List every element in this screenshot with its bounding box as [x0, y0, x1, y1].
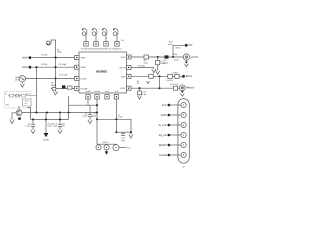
oscillator Y2 circle	[19, 76, 25, 82]
junction R1 x157.7	[157, 56, 159, 58]
rail bottom pin4	[115, 99, 117, 132]
wire transistor base to ground	[12, 113, 16, 120]
capacitor C14 box inline	[149, 74, 153, 78]
svg-text:IOUTB: IOUTB	[119, 67, 126, 70]
power flag F4	[113, 28, 118, 41]
header pin circle 2	[181, 112, 186, 117]
wire bottom y132.2	[116, 131, 131, 133]
svg-text:XTAL1: XTAL1	[103, 141, 110, 144]
pin 27 box right	[127, 66, 132, 70]
power flag F3	[102, 28, 107, 41]
sub block box	[23, 99, 32, 106]
wire R2 out	[131, 67, 154, 69]
capacitor label C9	[51, 81, 56, 86]
header row 2 wire	[170, 114, 181, 116]
svg-text:FQ_UD: FQ_UD	[159, 134, 167, 137]
junction B x46	[45, 118, 47, 120]
svg-text:R10 0Ω: R10 0Ω	[166, 79, 173, 82]
junction x131 y132.2	[130, 131, 132, 133]
bottom pin box 4	[114, 95, 118, 99]
header row 3 wire	[170, 124, 181, 126]
riser label R6A	[168, 41, 174, 46]
svg-text:RESET: RESET	[159, 144, 167, 147]
capacitor C6 label	[25, 122, 31, 127]
wire transistor top to block	[18, 106, 20, 110]
svg-text:49.9Ω: 49.9Ω	[174, 59, 179, 62]
svg-text:10kΩ: 10kΩ	[57, 51, 62, 54]
header pin circle 4	[181, 132, 186, 137]
svg-text:RF IN: RF IN	[186, 75, 192, 78]
bottom pin box 2	[95, 95, 99, 99]
resistor R6 box	[10, 94, 14, 97]
header row 3 dot	[168, 124, 171, 127]
node VINP dot	[29, 56, 32, 59]
svg-text:RSET: RSET	[120, 87, 126, 90]
ground arrow C16	[137, 95, 141, 99]
ground flag under oscillator	[20, 82, 24, 87]
resistor R2 pullup label	[57, 48, 62, 53]
svg-text:C15 0.1μF: C15 0.1μF	[170, 83, 179, 86]
ground arrow under P2	[105, 150, 109, 155]
resistor R4 label	[144, 59, 149, 64]
wire VINP to pin1	[31, 57, 74, 59]
svg-text:R1 0Ω: R1 0Ω	[42, 53, 48, 56]
wire B horizontal	[31, 118, 69, 120]
dashed option box	[5, 92, 32, 109]
header pin circle 1	[181, 102, 186, 107]
junction R3 x159.5	[158, 75, 160, 77]
resistor R10 box inline	[168, 74, 173, 78]
svg-text:IOUT: IOUT	[121, 56, 127, 59]
emitter blob	[18, 117, 21, 119]
header pin circle 5	[181, 142, 186, 147]
wire B left riser	[28, 108, 31, 120]
junction B x33	[32, 118, 34, 120]
header row 6 wire	[170, 154, 181, 156]
capacitor C10 box	[68, 86, 72, 89]
vertical rail x36.5	[36, 67, 38, 112]
inductor L1 shunt	[156, 57, 160, 71]
wire riser to TP	[173, 45, 185, 57]
svg-text:RFOUT: RFOUT	[186, 87, 195, 90]
wire VINN to pin2	[31, 66, 74, 68]
header row 6 dot	[168, 154, 171, 157]
junction wire2/rail	[54, 66, 56, 68]
header row 5 dot	[168, 144, 171, 147]
junction wire1/rail	[54, 57, 56, 59]
pin 3 box left	[75, 77, 80, 81]
junction rail97 y112.5	[96, 111, 98, 113]
svg-text:D.GND: D.GND	[159, 154, 167, 157]
svg-text:OPEN: OPEN	[175, 46, 181, 49]
svg-text:C7 0.1μF: C7 0.1μF	[59, 74, 68, 77]
capacitor C8 label right	[62, 122, 66, 127]
capacitor C3 label	[82, 112, 88, 117]
svg-text:VOUT1: VOUT1	[191, 56, 199, 59]
junction rail97 y105	[96, 104, 98, 106]
pin 25 box right	[127, 86, 132, 90]
junction A x60	[59, 111, 61, 113]
svg-text:VINP: VINP	[121, 75, 126, 78]
wire R1 out	[131, 56, 183, 58]
wire R3 out	[131, 75, 183, 77]
connector circle P3	[113, 144, 119, 150]
rail bottom pin2	[96, 99, 98, 144]
oscillator label	[15, 76, 20, 81]
resistor R9 label	[137, 80, 140, 85]
capacitor C4 loop	[116, 119, 131, 132]
svg-text:AD9851: AD9851	[96, 70, 108, 74]
inductor L1 label	[161, 60, 167, 65]
DGND net text	[48, 122, 55, 127]
label R4A	[174, 53, 179, 61]
header pin circle 6	[181, 152, 186, 157]
resistor R4 box inline	[144, 55, 149, 59]
junction A rail36	[35, 111, 37, 113]
wire y105	[68, 96, 70, 119]
junction R4 x139.5	[138, 87, 140, 89]
ground under J4	[180, 91, 184, 97]
capacitor C7b	[58, 125, 62, 130]
wire4 to pin4	[51, 87, 75, 89]
header J2 body	[178, 99, 189, 164]
wire pullup vertical	[51, 40, 56, 58]
svg-text:10μF: 10μF	[51, 84, 56, 87]
capacitor C15 box inline	[174, 86, 178, 90]
pin 26 box right	[127, 74, 132, 78]
IC U1 body	[79, 52, 127, 93]
svg-text:GND: GND	[48, 125, 53, 128]
svg-text:C3VDD 0.1: C3VDD 0.1	[101, 48, 112, 51]
crystal X1 symbol	[15, 94, 19, 97]
capacitor C16 label	[142, 91, 147, 96]
power flag F5	[47, 40, 52, 45]
svg-text:DATA: DATA	[161, 114, 167, 117]
ferrite bead FB1	[62, 85, 66, 88]
header row 1 wire	[170, 104, 181, 106]
resistor R5 box on wire4	[52, 87, 56, 90]
svg-text:49.9Ω: 49.9Ω	[168, 43, 173, 46]
junction B x60	[59, 118, 61, 120]
pin 28 box right	[127, 55, 132, 59]
top pin box 1	[84, 42, 88, 47]
svg-text:C4VDD 0.1: C4VDD 0.1	[112, 48, 123, 51]
resistor R7 label	[92, 112, 97, 117]
top pin box 3	[104, 42, 108, 47]
connector circle P2	[104, 144, 109, 150]
vertical x60 A to B	[59, 113, 61, 125]
junction wire3/rail	[54, 77, 56, 79]
SMA connector J4	[179, 85, 185, 91]
svg-text:VINN: VINN	[22, 66, 28, 69]
capacitor C3 stem	[88, 105, 92, 120]
pin 1 box left	[75, 56, 80, 60]
wire rail osc branch down	[55, 79, 57, 89]
svg-text:R8 25Ω: R8 25Ω	[138, 64, 145, 67]
svg-text:OPEN: OPEN	[173, 71, 179, 74]
resistor R11 box inline	[175, 74, 179, 78]
node VINN dot	[29, 66, 32, 69]
wire rail x55.5	[55, 58, 57, 92]
node RFIN dot	[182, 75, 185, 78]
ground arrow R2	[152, 68, 156, 73]
svg-text:W_CLK: W_CLK	[159, 124, 167, 127]
SMA connector J3	[183, 54, 189, 60]
ground under J3	[185, 60, 189, 67]
junction rail x36.5 top	[35, 66, 37, 68]
svg-text:OSC: OSC	[15, 79, 20, 82]
svg-text:DGND: DGND	[43, 138, 49, 141]
svg-text:TAJ: TAJ	[62, 125, 65, 128]
capacitor C4 label	[118, 113, 124, 118]
junction rail116 y132.2	[115, 131, 117, 133]
bottom pin box 1	[86, 95, 90, 99]
crystal row wire	[8, 95, 37, 97]
capacitor C16 shunt	[138, 88, 142, 95]
vertical R3-R4 link	[159, 76, 161, 88]
header row 4 wire	[170, 134, 181, 136]
top pin box 4	[115, 42, 119, 47]
svg-text:CLKIN: CLKIN	[81, 78, 87, 81]
junction R4 x159.5	[158, 87, 160, 89]
pin 4 box left	[75, 86, 80, 90]
connector circle P1	[96, 144, 101, 150]
wire to xtal circles	[97, 143, 116, 145]
bottom pin box 3	[105, 95, 109, 99]
svg-text:AGND: AGND	[85, 90, 91, 93]
svg-text:VINP: VINP	[81, 57, 86, 60]
top pin box 2	[94, 42, 98, 47]
signal ground DGND	[44, 133, 49, 137]
svg-text:VINN: VINN	[81, 66, 86, 69]
stem bottom pin1	[87, 99, 89, 105]
svg-text:VINP: VINP	[22, 57, 28, 60]
ground arrow x130.8	[129, 132, 133, 138]
capacitor C6	[31, 119, 35, 129]
wire B right segment	[97, 118, 116, 120]
svg-text:200Ω: 200Ω	[144, 61, 149, 64]
svg-text:DACBP: DACBP	[81, 87, 89, 90]
header pin circle 3	[181, 122, 186, 127]
ground arrow under rail	[53, 92, 57, 95]
ground arrow C3	[88, 120, 92, 124]
capacitor C13 47uF	[121, 132, 125, 135]
svg-text:BEAD: BEAD	[163, 61, 169, 64]
capacitor C11 box	[22, 94, 26, 97]
svg-text:GND: GND	[105, 90, 110, 93]
svg-text:DGND: DGND	[94, 90, 100, 93]
vertical x46 A to B	[45, 113, 47, 134]
capacitor C7b label	[53, 122, 58, 127]
power flag F1	[82, 28, 87, 41]
wire R4 out	[131, 87, 179, 89]
header row 2 dot	[168, 114, 171, 117]
ferrite bead FB2 inline	[165, 55, 169, 58]
header row 1 dot	[168, 104, 171, 107]
ground arrow C6	[31, 130, 35, 134]
junction rail97 y119.3	[96, 118, 98, 120]
svg-text:R3 0Ω: R3 0Ω	[42, 63, 48, 66]
svg-text:VCC: VCC	[162, 104, 167, 107]
power flag F2	[92, 28, 97, 41]
junction A x68.6	[68, 111, 70, 113]
header row 5 wire	[170, 144, 181, 146]
junction A x47	[46, 111, 48, 113]
capacitor C13 label	[121, 137, 126, 142]
ferrite FB2 label	[163, 59, 169, 64]
ground arrow C7b	[58, 130, 62, 134]
svg-text:10kΩ: 10kΩ	[92, 114, 97, 117]
junction R1 x173	[172, 56, 174, 58]
open marker arrow	[146, 81, 149, 83]
junction rail116 y119.3	[115, 118, 117, 120]
ground arrow base	[10, 120, 14, 124]
wire from P3 right	[119, 147, 127, 149]
svg-text:C5 10pF: C5 10pF	[59, 63, 67, 66]
wire osc to pin3	[26, 78, 75, 80]
test point TP2 dot	[185, 44, 188, 47]
pin 2 box left	[75, 65, 80, 69]
svg-text:49.9: 49.9	[26, 93, 30, 96]
wire A horizontal	[22, 112, 97, 114]
svg-text:TP2: TP2	[188, 44, 193, 47]
transistor Q1	[16, 110, 22, 116]
header row 4 dot	[168, 134, 171, 137]
ground arrow L1	[156, 71, 160, 74]
